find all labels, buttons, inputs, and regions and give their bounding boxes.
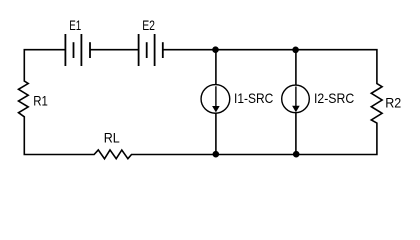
svg-text:R1: R1 [33,92,48,108]
svg-text:RL: RL [104,130,120,146]
svg-text:R2: R2 [385,95,401,111]
svg-text:E1: E1 [69,17,81,33]
svg-text:E2: E2 [142,17,155,33]
svg-text:I1-SRC: I1-SRC [234,90,273,106]
svg-text:I2-SRC: I2-SRC [314,90,354,106]
